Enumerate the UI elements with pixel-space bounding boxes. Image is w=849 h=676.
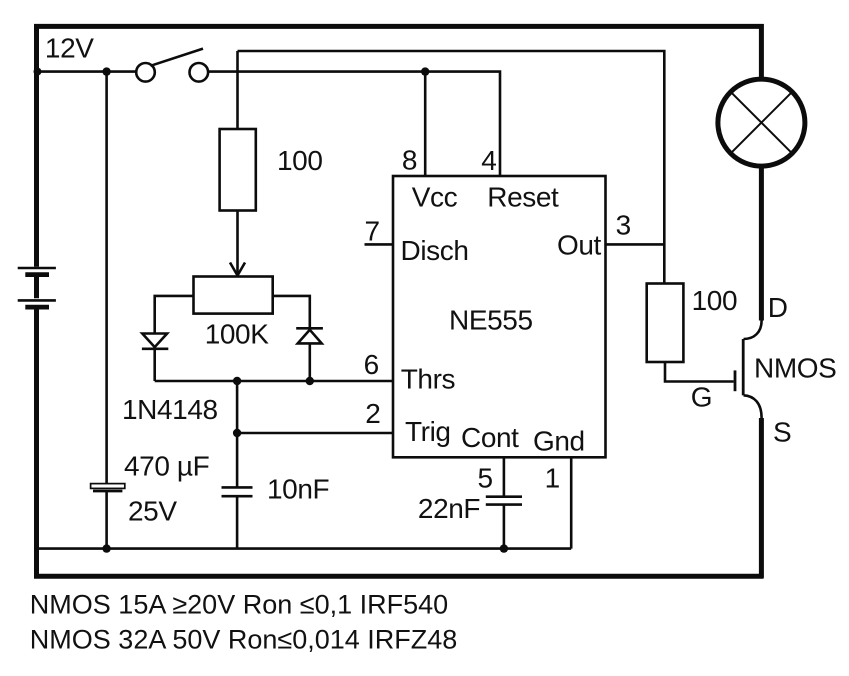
svg-text:100: 100 — [277, 145, 323, 176]
svg-text:Reset: Reset — [487, 181, 559, 212]
svg-text:1N4148: 1N4148 — [122, 394, 218, 425]
svg-text:NE555: NE555 — [449, 305, 533, 336]
svg-text:Out: Out — [557, 230, 602, 261]
svg-text:NMOS: NMOS — [754, 352, 836, 383]
svg-text:12V: 12V — [45, 33, 94, 64]
svg-text:Trig: Trig — [405, 416, 451, 447]
svg-text:S: S — [773, 417, 791, 448]
svg-text:G: G — [691, 382, 712, 413]
svg-text:NMOS 15A ≥20V Ron ≤0,1 IRF540: NMOS 15A ≥20V Ron ≤0,1 IRF540 — [30, 590, 448, 620]
svg-text:100K: 100K — [205, 319, 270, 350]
svg-text:Disch: Disch — [401, 235, 469, 266]
svg-text:8: 8 — [402, 144, 417, 175]
svg-text:Gnd: Gnd — [533, 426, 585, 457]
svg-text:25V: 25V — [128, 496, 177, 527]
svg-text:22nF: 22nF — [418, 493, 480, 524]
svg-text:1: 1 — [545, 463, 560, 494]
svg-text:3: 3 — [616, 210, 631, 241]
svg-text:2: 2 — [365, 398, 380, 429]
svg-text:Vcc: Vcc — [412, 181, 458, 212]
svg-text:10nF: 10nF — [267, 474, 329, 505]
svg-text:100: 100 — [692, 285, 738, 316]
svg-text:7: 7 — [365, 216, 380, 247]
svg-text:5: 5 — [478, 462, 493, 493]
svg-text:6: 6 — [364, 349, 379, 380]
svg-text:Thrs: Thrs — [401, 363, 455, 394]
svg-text:NMOS 32A 50V Ron≤0,014 IRFZ48: NMOS 32A 50V Ron≤0,014 IRFZ48 — [30, 625, 458, 655]
svg-text:D: D — [768, 292, 788, 323]
svg-text:470 µF: 470 µF — [124, 450, 209, 481]
svg-text:Cont: Cont — [461, 422, 519, 453]
svg-text:4: 4 — [481, 145, 496, 176]
